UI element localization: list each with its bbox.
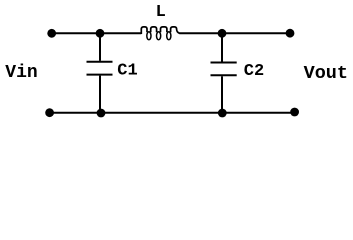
- svg-text:C1: C1: [117, 62, 137, 81]
- node junction C2 bottom (dot): [218, 109, 227, 118]
- node junction C2 top (dot): [218, 29, 227, 38]
- svg-text:C2: C2: [244, 62, 264, 81]
- capacitor C2 bottom stem: [221, 76, 223, 113]
- inductor L loop 3: [167, 32, 171, 40]
- capacitor C1 bottom stem: [99, 76, 101, 113]
- node Vout bottom (dot): [290, 108, 299, 117]
- capacitor C2 top plate: [211, 62, 237, 64]
- svg-text:L: L: [156, 3, 166, 22]
- wire top rail left segment: [52, 32, 142, 34]
- capacitor C2 bottom plate: [211, 74, 237, 76]
- svg-text:Vout: Vout: [304, 63, 348, 84]
- capacitor C1 top plate: [87, 61, 113, 63]
- node Vout top (dot): [286, 29, 295, 38]
- capacitor C1 bottom plate: [87, 74, 113, 76]
- node Vin top (dot): [47, 29, 56, 38]
- node junction C1 top (dot): [96, 29, 105, 38]
- inductor L loop 1: [147, 32, 151, 40]
- capacitor C2 top stem: [221, 33, 223, 61]
- svg-text:Vin: Vin: [5, 63, 37, 83]
- inductor L coil humps: [141, 27, 180, 34]
- node junction C1 bottom (dot): [97, 109, 106, 118]
- capacitor C1 top stem: [99, 33, 101, 61]
- wire top rail right segment: [179, 32, 290, 34]
- wire bottom rail: [50, 112, 295, 114]
- node Vin bottom (dot): [45, 108, 54, 117]
- inductor L loop 2: [157, 32, 161, 40]
